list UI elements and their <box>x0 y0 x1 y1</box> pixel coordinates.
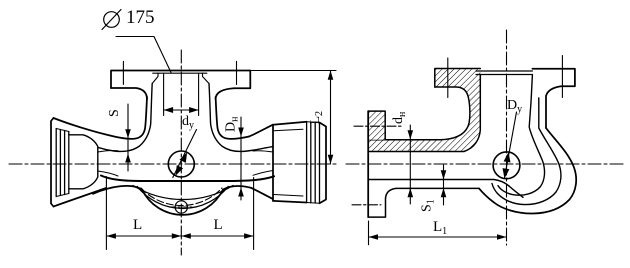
dimension S <box>127 104 129 171</box>
raised face gasket line <box>153 72 207 74</box>
bell cup outline <box>69 135 98 189</box>
bell bottom outer edge <box>54 188 107 207</box>
bell cup left edge <box>272 125 274 201</box>
bell cup inner top line <box>274 129 303 131</box>
arrowhead in circle upper <box>504 152 511 162</box>
wire: vertical centerline right view branch <box>506 30 508 245</box>
dimension L1 <box>368 221 370 245</box>
bell cone bottom edge <box>251 188 273 199</box>
flange plate elevation right half <box>532 69 575 128</box>
left flange bolt dash upper <box>354 125 401 127</box>
flange top left view <box>111 71 250 89</box>
branch neck outer right + pipe top edge to right bell <box>216 97 249 139</box>
svg-text:L: L <box>214 217 223 233</box>
bolt hole tick left flange <box>122 61 124 84</box>
pipe bottom outer line B2 with bottom boss bulge <box>93 186 251 215</box>
boss hidden dashed arc <box>141 188 222 206</box>
raised face band right view <box>476 70 532 72</box>
dimension S1 right view <box>443 165 445 205</box>
bell throat bore lines <box>98 150 118 152</box>
center circle on axes left view <box>168 151 194 177</box>
bolt tick right view left <box>447 58 449 98</box>
wire: horizontal centerline left view <box>9 163 336 165</box>
svg-text:dн: dн <box>391 111 408 124</box>
bolt hole tick right flange <box>236 61 238 84</box>
branch neck inner right curve <box>209 84 273 152</box>
dimension d_H right view <box>409 125 411 204</box>
svg-text:L1: L1 <box>433 219 447 237</box>
label diameter Ø175 <box>102 10 121 30</box>
branch neck outer left + pipe top edge + left bell top <box>54 97 148 139</box>
pipe bottom inner line B1 <box>101 176 274 182</box>
svg-text:dy: dy <box>182 114 194 131</box>
dimension d_y <box>163 73 165 115</box>
center circle on axes right view <box>493 152 520 179</box>
drain hole circle with cross <box>175 201 187 213</box>
hook 2 hub sweep <box>492 98 561 205</box>
bell cone top edge <box>249 125 273 137</box>
svg-text:175: 175 <box>126 7 155 28</box>
arrowhead in circle lower <box>176 165 184 176</box>
hook 3 bore line <box>498 75 545 195</box>
wire: horizontal centerline right view <box>346 163 623 165</box>
bell cup inner bottom line <box>274 195 303 197</box>
bell cup bottom edge <box>273 201 307 203</box>
branch neck inner left curve <box>98 84 152 152</box>
bell cup top edge <box>273 122 307 125</box>
wire: leader line from Ø175 <box>116 37 171 73</box>
bell mouth right edge <box>320 123 327 204</box>
bell left edge <box>51 118 54 207</box>
bolt tick right view right <box>561 56 563 98</box>
boss inner arc 2 <box>137 187 228 209</box>
svg-text:S1: S1 <box>420 199 437 212</box>
hatched left flange lip <box>368 111 385 140</box>
svg-text:S: S <box>107 109 122 117</box>
outer sweep hook right view <box>479 128 576 214</box>
dimension L (left half) <box>105 177 107 250</box>
leader D_y <box>505 112 517 178</box>
dimension D_H left view <box>240 117 242 200</box>
arrowhead in circle lower <box>503 168 510 178</box>
svg-text:Dн: Dн <box>224 116 241 132</box>
svg-text:L: L <box>133 217 142 233</box>
svg-text:Dy: Dy <box>507 98 522 115</box>
bell ring lines <box>306 122 308 203</box>
boss inner arc 1 <box>133 186 233 200</box>
bell ring lines <box>55 129 57 197</box>
dimension L2 <box>250 70 336 72</box>
svg-text:L2: L2 <box>308 111 325 125</box>
wire: vertical centerline left view branch <box>180 50 182 255</box>
left flange bolt dash lower <box>352 204 381 206</box>
arrowhead in circle upper <box>180 152 188 163</box>
left flange face line <box>367 111 369 217</box>
pipe bottom outer line + boot <box>368 188 479 217</box>
pipe bottom inner line right view <box>368 180 523 198</box>
hatched flange plate section <box>368 69 480 152</box>
leader d_y through circle <box>173 130 197 178</box>
bell throat bore lines <box>253 151 273 152</box>
